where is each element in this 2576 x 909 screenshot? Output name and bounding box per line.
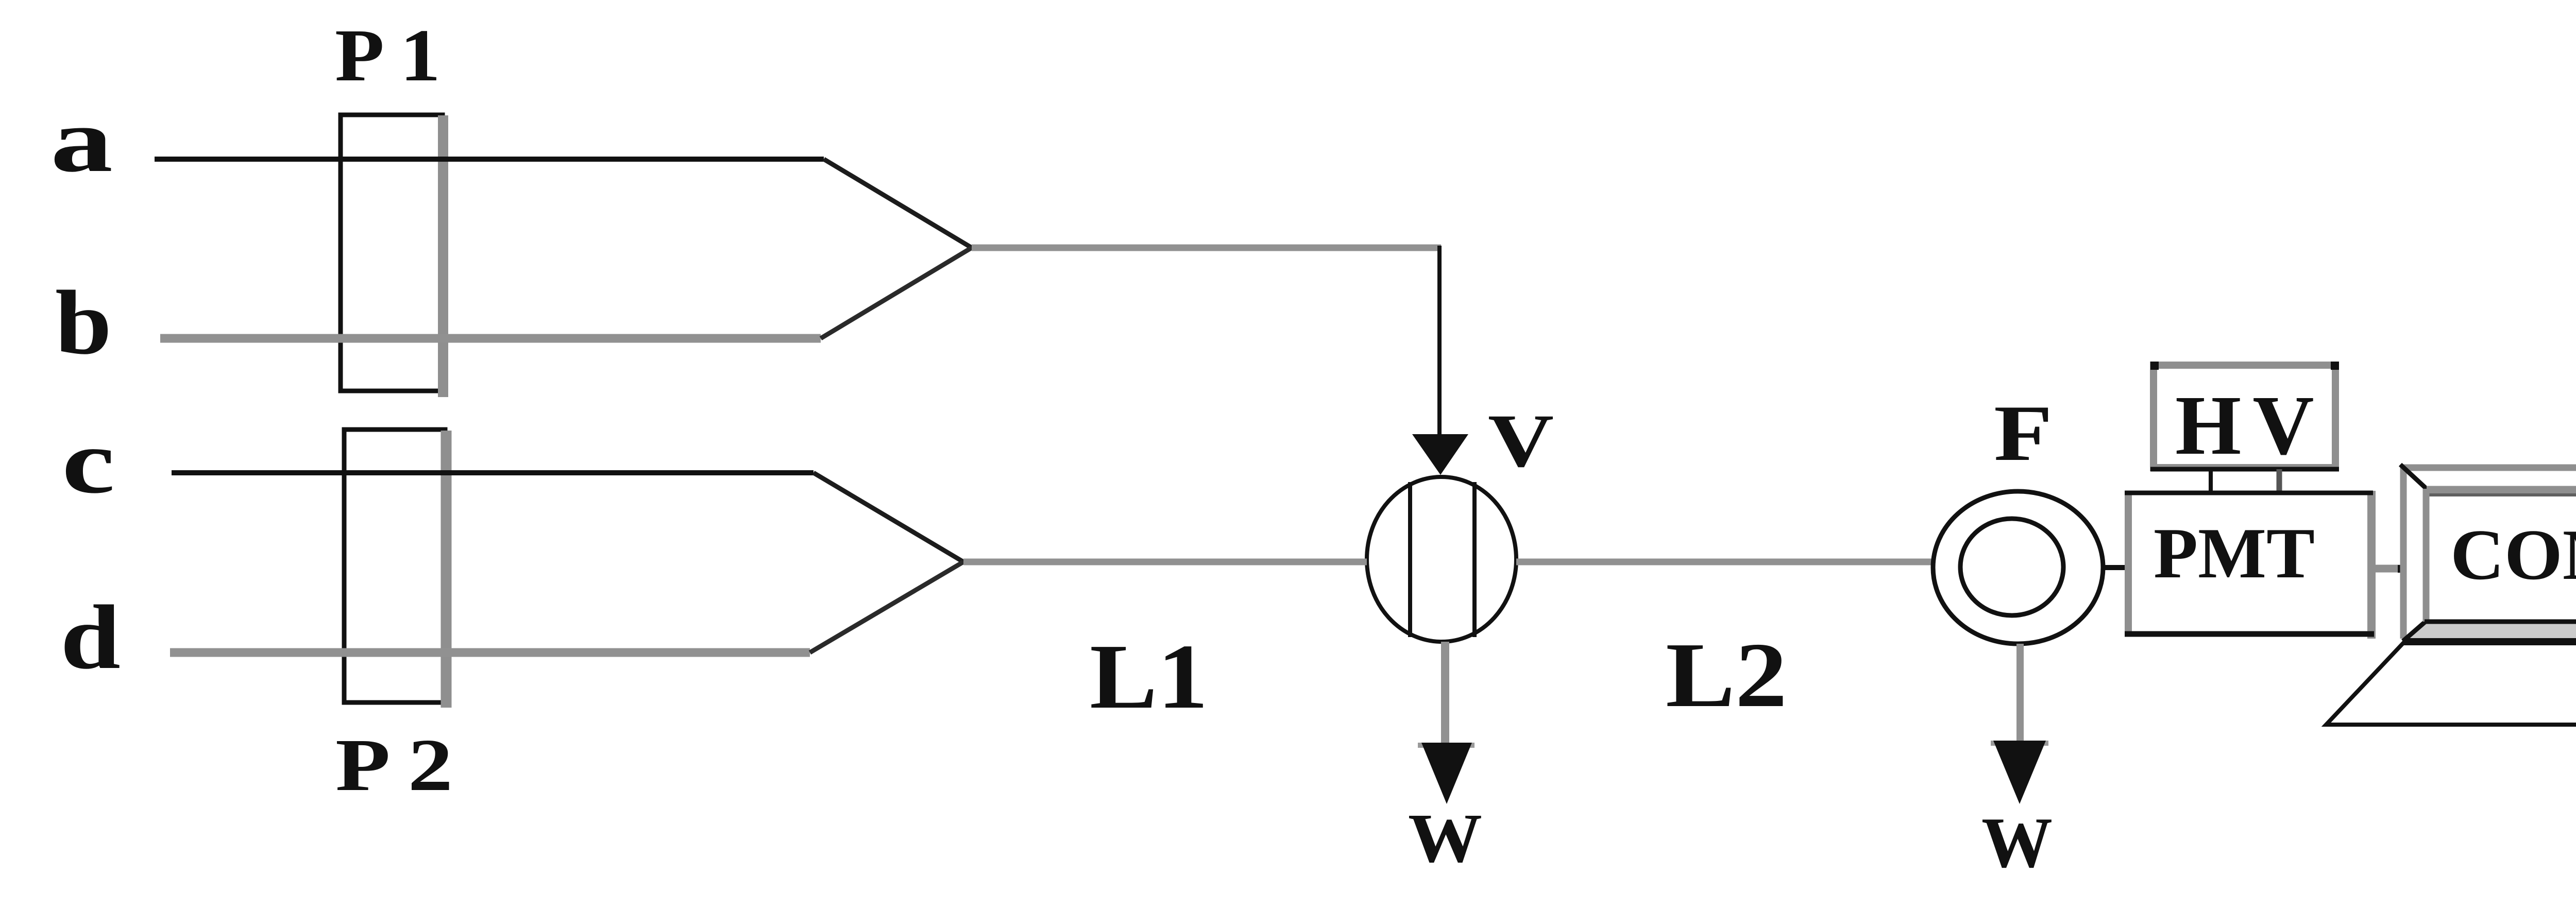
flow cell F inner <box>1960 519 2063 615</box>
wire b <box>160 334 821 343</box>
pump P1 shadow <box>438 115 448 397</box>
wire flow cell to PMT <box>2102 565 2128 570</box>
flow cell F outer <box>1933 491 2103 644</box>
pump P2 shadow <box>441 431 452 708</box>
monitor outer frame <box>2400 465 2576 471</box>
wire drop into valve <box>1437 246 1442 437</box>
PMT box <box>2125 491 2374 639</box>
corner diagonals <box>2400 465 2428 490</box>
svg-text:L1: L1 <box>1090 625 1208 728</box>
screen <box>2427 489 2576 622</box>
wire PMT to COM <box>2373 565 2402 573</box>
valve V <box>1367 477 1516 642</box>
wire a <box>155 157 824 162</box>
svg-text:P 1: P 1 <box>335 14 440 97</box>
wire a merge diagonal <box>824 159 972 248</box>
computer keyboard <box>2326 641 2576 725</box>
wire c <box>172 470 814 475</box>
svg-text:W: W <box>1981 803 2053 883</box>
HV box <box>2150 362 2339 469</box>
wire merged ab <box>972 245 1441 251</box>
svg-text:P 2: P 2 <box>335 724 453 807</box>
wire b merge diagonal <box>821 248 972 338</box>
svg-text:a: a <box>50 89 113 191</box>
svg-text:COM: COM <box>2450 515 2576 595</box>
HV-PMT connector 2 <box>2277 469 2282 491</box>
wire c merge diagonal <box>814 473 963 562</box>
wire d merge diagonal <box>810 562 963 653</box>
svg-text:L2: L2 <box>1666 624 1787 726</box>
svg-text:V: V <box>1488 399 1554 483</box>
computer COM monitor <box>2400 465 2576 642</box>
arrow valve waste <box>1418 743 1475 748</box>
arrow flow cell waste <box>1991 741 2048 746</box>
pump P1 <box>341 115 443 391</box>
arrow into valve <box>1412 434 1468 475</box>
wire d <box>170 648 810 657</box>
svg-text:PMT: PMT <box>2154 513 2315 593</box>
svg-text:F: F <box>1994 389 2053 477</box>
wire merged cd to valve <box>963 559 1367 565</box>
svg-text:d: d <box>60 586 121 688</box>
svg-text:b: b <box>55 271 112 373</box>
wire valve to flow cell (coil L2) <box>1516 559 1933 565</box>
svg-text:W: W <box>1408 800 1482 877</box>
wire flow cell to waste <box>2016 644 2024 744</box>
pump P2 <box>344 430 445 702</box>
monitor bottom edge <box>2403 638 2576 645</box>
wire valve to waste <box>1441 642 1449 745</box>
bottom bevel <box>2404 622 2576 639</box>
HV-PMT connector 1 <box>2209 469 2213 491</box>
svg-text:c: c <box>62 410 115 512</box>
